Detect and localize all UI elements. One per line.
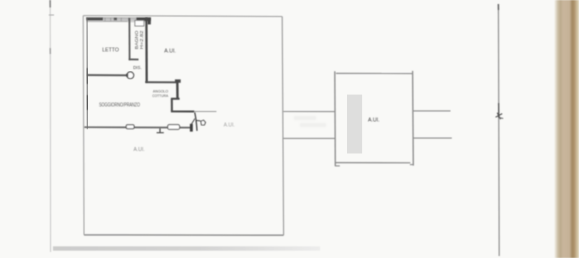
svg-text:A.UI.: A.UI. bbox=[134, 147, 146, 153]
svg-text:A.UI.: A.UI. bbox=[224, 123, 236, 129]
svg-text:COTTURA: COTTURA bbox=[152, 93, 168, 98]
svg-text:A.UI.: A.UI. bbox=[368, 117, 380, 123]
svg-text:DIS.: DIS. bbox=[133, 65, 142, 71]
svg-text:LETTO: LETTO bbox=[102, 47, 119, 53]
svg-text:H=2.82: H=2.82 bbox=[139, 30, 144, 49]
svg-text:A.UI.: A.UI. bbox=[164, 49, 176, 55]
svg-text:SOGGIORNO/PRANZO: SOGGIORNO/PRANZO bbox=[99, 102, 140, 108]
